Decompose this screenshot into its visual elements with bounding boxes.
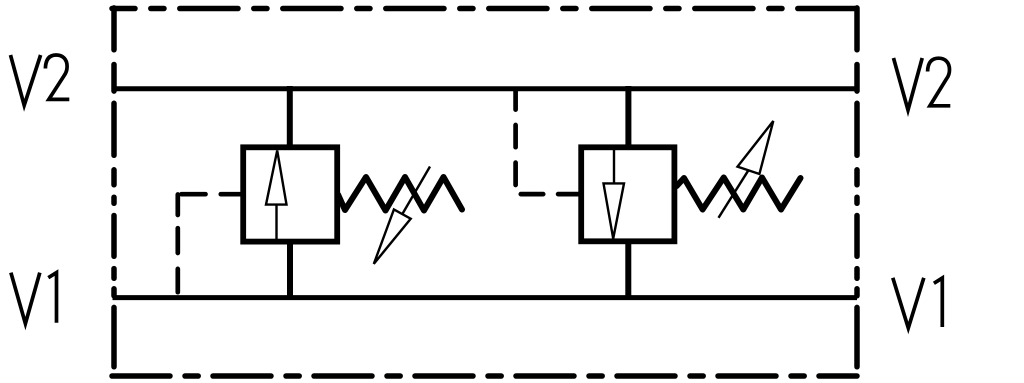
label V1 left [11,273,57,324]
label V1 right [893,278,943,328]
enclosure border bottom edge (dash-dot) [112,373,857,379]
wire: left valve to V2 [287,86,293,149]
wire: left valve to V1 [287,241,293,300]
wire: right valve to V2 [625,86,631,149]
relief valve RV1 flow arrow (up) [266,151,287,241]
pilot line left valve (dashed to V1) [178,194,241,292]
pilot line right valve (dashed to V2) [516,89,578,194]
label V2 right [894,58,951,110]
relief valve RV1 adjustment arrow [374,167,430,264]
relief valve RV2 adjustment arrow [719,121,774,218]
relief valve RV1 spring [338,177,462,211]
port line V2 (top horizontal wire) [113,86,858,91]
port line V1 (bottom horizontal wire) [113,295,858,300]
relief valve RV2 body (right square) [581,147,674,241]
relief valve RV2 spring [677,178,801,210]
label V2 left [11,55,70,105]
enclosure border right edge (dash-dot) [854,8,860,367]
wire: right valve to V1 [625,240,631,299]
relief valve RV1 body (left square) [243,147,337,241]
enclosure border top edge (dash-dot) [112,6,857,12]
enclosure border left edge (dash-dot) [111,8,117,367]
relief valve RV2 flow arrow (down) [604,150,625,239]
